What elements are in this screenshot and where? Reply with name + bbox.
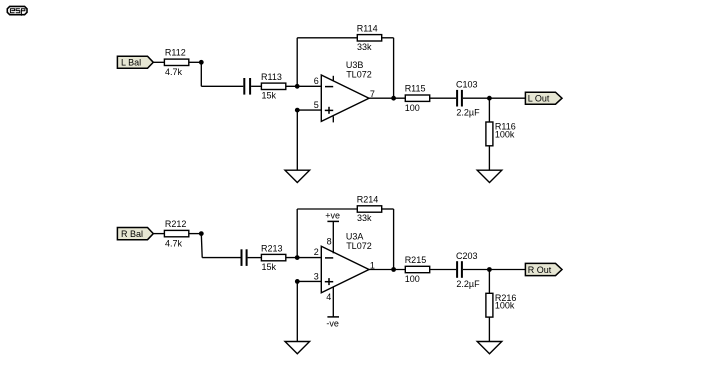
svg-text:4.7k: 4.7k [165,239,183,249]
svg-text:100: 100 [405,103,420,113]
svg-text:R Out: R Out [528,265,552,275]
svg-text:R113: R113 [261,72,282,82]
svg-text:-ve: -ve [326,318,339,328]
svg-text:R213: R213 [261,243,283,253]
svg-text:R215: R215 [405,255,427,265]
svg-text:+ve: +ve [325,211,340,221]
svg-text:100: 100 [405,274,420,284]
svg-text:R115: R115 [405,84,426,94]
svg-text:R212: R212 [165,219,187,229]
svg-text:TL072: TL072 [346,70,372,80]
svg-text:7: 7 [370,89,375,99]
svg-text:TL072: TL072 [346,241,372,251]
svg-text:L Out: L Out [528,94,550,104]
svg-text:4: 4 [326,292,331,302]
svg-text:8: 8 [327,237,332,247]
svg-text:L Bal: L Bal [121,58,141,68]
svg-text:2.2µF: 2.2µF [456,279,480,289]
svg-text:100k: 100k [495,301,515,311]
svg-text:5: 5 [314,100,319,110]
svg-text:R114: R114 [357,24,378,34]
svg-text:R112: R112 [165,48,186,58]
svg-text:15k: 15k [262,262,277,272]
svg-text:15k: 15k [262,91,277,101]
svg-text:3: 3 [314,272,319,282]
svg-text:6: 6 [314,76,319,86]
svg-text:4.7k: 4.7k [165,67,183,77]
svg-text:33k: 33k [357,42,372,52]
svg-text:33k: 33k [357,213,372,223]
svg-text:R214: R214 [357,195,379,205]
svg-text:100k: 100k [495,129,515,139]
svg-text:2: 2 [314,247,319,257]
svg-text:2.2µF: 2.2µF [456,108,480,118]
svg-text:1: 1 [370,260,375,270]
svg-text:C103: C103 [456,80,478,90]
svg-text:R Bal: R Bal [121,229,143,239]
svg-text:C203: C203 [456,251,478,261]
